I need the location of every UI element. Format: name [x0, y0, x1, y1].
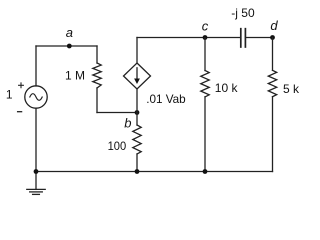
- resistor R3 10k: [201, 38, 209, 172]
- dependent current source U1 (.01 Vab): [124, 63, 151, 89]
- wire bottom rail: [36, 171, 273, 173]
- resistor R1 1M: [93, 46, 101, 113]
- wire capacitor to node d: [246, 37, 273, 39]
- node b: [135, 110, 140, 115]
- wire top middle from diamond to capacitor: [137, 37, 240, 39]
- svg-text:10 k: 10 k: [215, 81, 239, 95]
- svg-text:1: 1: [6, 88, 13, 102]
- junction dot ground node: [34, 169, 39, 174]
- node d: [270, 35, 275, 40]
- svg-text:1 M: 1 M: [65, 69, 85, 83]
- svg-text:c: c: [202, 19, 209, 34]
- node a: [67, 44, 72, 49]
- svg-text:-j 50: -j 50: [231, 6, 255, 20]
- svg-text:5 k: 5 k: [283, 82, 300, 96]
- wire top-left from source to resistor 1M: [36, 45, 97, 47]
- svg-text:d: d: [270, 18, 278, 33]
- wire diamond top to top rail: [136, 38, 138, 64]
- ground: [27, 172, 45, 195]
- junction dot 10k bottom: [203, 169, 208, 174]
- plus sign of source: [19, 83, 24, 88]
- svg-text:a: a: [66, 25, 73, 40]
- resistor R4 5k: [268, 38, 276, 172]
- svg-text:100: 100: [108, 139, 127, 153]
- svg-text:b: b: [124, 116, 131, 131]
- junction dot 100 bottom: [135, 169, 140, 174]
- wire from 1M bottom to node b: [97, 112, 137, 114]
- wire left vertical below source: [35, 108, 37, 171]
- resistor R2 100: [133, 113, 141, 172]
- capacitor C1 (-j 50): [241, 29, 246, 47]
- wire diamond bottom to node b: [136, 89, 138, 113]
- minus sign of source: [18, 111, 22, 113]
- svg-text:.01 Vab: .01 Vab: [146, 92, 186, 106]
- wire left vertical above source: [35, 46, 37, 86]
- voltage source V1 (AC source, 1 V): [25, 86, 47, 108]
- node c: [203, 35, 208, 40]
